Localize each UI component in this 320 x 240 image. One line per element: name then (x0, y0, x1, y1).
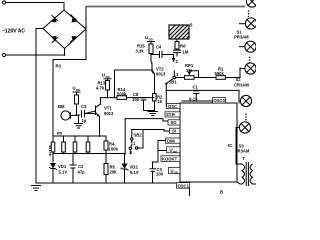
wire SI feed (132, 130, 170, 132)
svg-text:SS: SS (174, 171, 178, 175)
wire (176, 48, 178, 51)
lamp chain 3 second (236, 122, 251, 133)
wire SB1 throw to RP1 (176, 77, 185, 79)
pin OSC1 (177, 183, 190, 189)
wire (105, 175, 107, 184)
resistor 10k a (51, 142, 55, 152)
capacitor C2 47u (70, 154, 86, 184)
wire OSC0 feed (182, 100, 213, 102)
svg-text:1k: 1k (158, 99, 163, 104)
wire dc minus from bridge left corner down to ground rail (36, 29, 43, 184)
svg-text:1M: 1M (183, 50, 189, 55)
resistor R13 4.7k (96, 81, 110, 91)
wire (87, 136, 89, 142)
switch SB1 (165, 71, 179, 85)
ground rail wire bottom (36, 182, 180, 184)
wire SYN feed from switch area (125, 119, 168, 121)
svg-text:OSC0: OSC0 (214, 98, 226, 103)
svg-text:VT1: VT1 (104, 106, 112, 111)
resistor R1 560k (215, 67, 226, 80)
ground main (32, 186, 41, 191)
wire to lamp chain 3 (238, 90, 240, 103)
ground mic (75, 115, 83, 128)
svg-text:~120V AC: ~120V AC (2, 29, 25, 35)
svg-text:SI: SI (172, 129, 176, 134)
resistor R14 500k (117, 87, 127, 99)
switch SB2 (129, 130, 143, 156)
svg-text:T: T (242, 156, 245, 161)
zener VD1 5.1V (50, 163, 68, 183)
transistor VT2 9013 (115, 61, 166, 77)
svg-text:OSC: OSC (168, 104, 177, 109)
svg-text:R3AM: R3AM (238, 149, 250, 154)
svg-text:SB1: SB1 (169, 80, 178, 85)
capacitor C5 100 at IC (150, 167, 164, 183)
dots chain 2 (249, 57, 251, 64)
svg-text:IC: IC (228, 143, 233, 148)
wire R14 to C8/R2 (127, 97, 142, 99)
svg-text:5.1V: 5.1V (59, 170, 68, 175)
svg-text:S: S (190, 23, 193, 28)
ground R2 (148, 111, 158, 116)
svg-text:100: 100 (132, 97, 140, 102)
pin SYH (165, 112, 180, 117)
wire left vertical through VD1 (52, 152, 54, 162)
pin OSC (167, 104, 181, 110)
svg-text:CR3AM: CR3AM (234, 83, 249, 88)
svg-text:BM: BM (58, 104, 65, 109)
lamp chain 2 second (240, 63, 256, 74)
wire OSC1 stub down (189, 188, 191, 196)
diode lower-right (71, 36, 78, 42)
svg-text:500k: 500k (117, 91, 127, 96)
svg-text:S2: S2 (236, 77, 242, 82)
svg-text:100: 100 (156, 172, 164, 177)
svg-text:4×10k: 4×10k (48, 144, 53, 156)
wire (194, 77, 216, 79)
wire top rail (86, 6, 245, 8)
svg-text:3.3k: 3.3k (136, 49, 145, 54)
terminal AC input bottom (2, 53, 5, 56)
pin U SS (169, 167, 181, 174)
wire VT2 emitter down (154, 74, 156, 94)
wire DIM feed (153, 141, 166, 169)
svg-text:9013: 9013 (156, 72, 166, 77)
wire (6, 49, 65, 56)
wire lamp to transformer (236, 128, 242, 165)
dots chain 1 (248, 10, 250, 17)
svg-text:KOOKT: KOOKT (162, 156, 178, 161)
svg-text:OSC1: OSC1 (178, 183, 190, 188)
wire U DD pin stub (158, 150, 167, 152)
resistor 10k d (86, 142, 90, 152)
svg-text:SYH: SYH (166, 112, 175, 117)
svg-text:R5: R5 (57, 131, 63, 136)
wire right end of bus2 down (124, 154, 126, 164)
lamp chain 3 first (240, 95, 251, 106)
pin DIM (166, 138, 181, 143)
svg-text:SO: SO (171, 120, 178, 125)
dots chain 3 (245, 114, 247, 121)
hatched box S (169, 23, 193, 40)
svg-text:1µ: 1µ (82, 118, 87, 123)
IC box (180, 103, 237, 182)
power symbol U DD above R13 (102, 73, 111, 81)
diode lower-left (51, 36, 58, 43)
svg-text:150k: 150k (109, 147, 119, 152)
wire from SB1 common down to OSC pin (166, 85, 168, 107)
wire collector node (150, 54, 152, 62)
svg-text:47µ: 47µ (78, 170, 86, 175)
svg-text:PR3AM: PR3AM (234, 35, 249, 40)
junction dots (35, 54, 197, 163)
mic bias power symbol U DD (73, 86, 82, 96)
resistor Rd (175, 42, 186, 50)
pin KOCKT (161, 156, 180, 162)
wire SB2 lower contact to bus2 (129, 150, 131, 154)
diode upper-right (71, 15, 78, 23)
pin SI (170, 128, 181, 133)
microphone BM (58, 104, 80, 120)
resistor R15 3.3k (136, 44, 154, 54)
capacitor C4 (151, 45, 174, 59)
wire VT1 emitter to bus (99, 117, 101, 137)
svg-text:SB2: SB2 (134, 133, 143, 138)
resistor R5 20k (104, 164, 117, 175)
diode upper-left (51, 16, 58, 23)
svg-text:C1: C1 (193, 85, 199, 90)
svg-text:560k: 560k (215, 71, 225, 76)
wire (74, 136, 76, 142)
power symbol U DD above R15 (145, 35, 155, 44)
pin OSC0 (213, 98, 226, 104)
wire R1 to lamp chain 2 (226, 68, 241, 78)
wire (76, 104, 78, 115)
pin SO (168, 120, 180, 125)
pin U DD (167, 147, 181, 154)
svg-text:C2: C2 (78, 164, 84, 169)
svg-text:R3: R3 (56, 64, 62, 69)
svg-text:Rd: Rd (180, 44, 186, 49)
capacitor C3 1u (81, 104, 96, 123)
capacitor C1 0.13 (189, 85, 200, 102)
svg-text:B: B (220, 190, 223, 195)
mic bias resistor (75, 95, 79, 104)
wire R2 bottom (144, 101, 155, 111)
wire (105, 150, 107, 164)
transistor VT1 9013 (85, 104, 114, 117)
zener VD2 5.1V (121, 164, 139, 184)
bridge rectifier (43, 10, 86, 49)
wire dc plus: bridge right corner up to top rail (85, 7, 87, 30)
svg-text:C3: C3 (81, 104, 87, 109)
capacitor C8 100 (132, 92, 147, 111)
svg-text:4.7k: 4.7k (96, 86, 105, 91)
wire node B horizontal (166, 89, 239, 91)
lamp chain 1 top lamp (246, 0, 257, 7)
wire collector node VT1 (107, 90, 109, 98)
lamp chain 2 first (240, 41, 257, 52)
terminal AC input top (2, 1, 5, 4)
wire bus1 to R4 (105, 136, 107, 141)
svg-text:5.1V: 5.1V (130, 170, 139, 175)
wire bus bottom (53, 153, 125, 155)
svg-text:VD2: VD2 (130, 165, 139, 170)
wire with arrow into node 2 (172, 54, 179, 65)
resistor R4 150k (104, 141, 118, 152)
wire VT2 base from VT1 collector node (114, 70, 116, 98)
lamp chain 1 second (240, 18, 257, 29)
wire (6, 3, 64, 11)
wire IC bottom to transformer (237, 182, 242, 184)
svg-text:C4: C4 (156, 45, 162, 50)
resistor R2 1k (153, 94, 164, 105)
resistor 10k c (73, 142, 77, 152)
svg-text:DIM: DIM (167, 138, 175, 143)
svg-text:20k: 20k (110, 170, 118, 175)
potentiometer RP1 1M (185, 63, 199, 79)
resistor RG 1M plates (173, 50, 189, 55)
transformer T (242, 156, 256, 186)
wire dc plus down to low-voltage rail (53, 29, 86, 142)
resistor 10k b (62, 142, 66, 152)
svg-text:VD1: VD1 (58, 164, 67, 169)
resistor bus top (53, 135, 106, 137)
svg-text:9013: 9013 (104, 111, 114, 116)
wire (63, 136, 65, 142)
wire (176, 39, 178, 42)
